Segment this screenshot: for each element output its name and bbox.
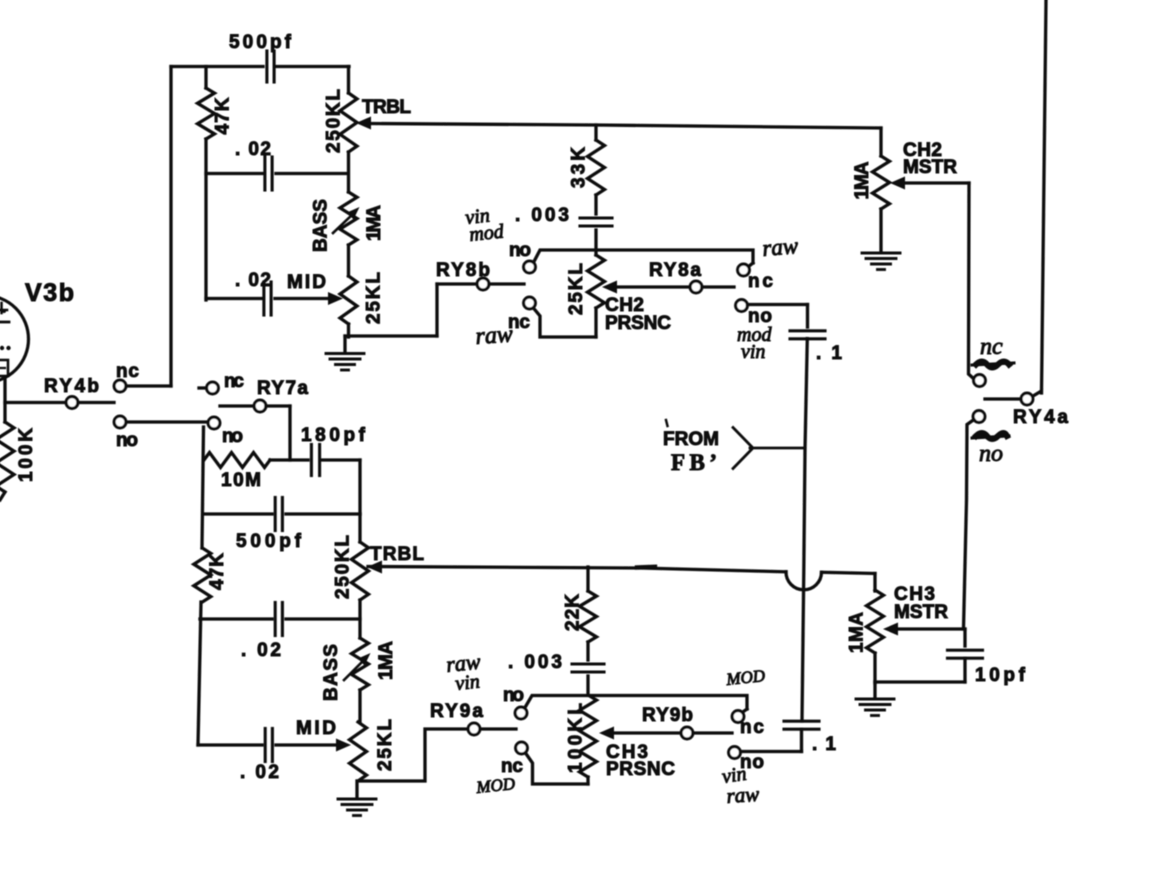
svg-text:RY4b: RY4b — [44, 376, 99, 397]
svg-text:FROM: FROM — [663, 429, 719, 450]
svg-text:25KL: 25KL — [375, 719, 396, 771]
svg-text:TRBL: TRBL — [370, 544, 424, 565]
svg-text:250KL: 250KL — [333, 535, 354, 599]
svg-text:vin: vin — [741, 341, 765, 363]
svg-text:V3b: V3b — [25, 279, 74, 307]
svg-text:47K: 47K — [213, 97, 234, 134]
svg-text:1MA: 1MA — [852, 161, 873, 199]
svg-text:nc: nc — [980, 334, 1003, 360]
svg-text:100K: 100K — [16, 428, 37, 482]
svg-text:33K: 33K — [569, 147, 590, 188]
svg-text:RY8b: RY8b — [436, 260, 490, 281]
svg-text:FB’: FB’ — [671, 450, 717, 475]
svg-text:1MA: 1MA — [847, 612, 868, 653]
svg-text:RY7a: RY7a — [257, 378, 308, 399]
svg-text:raw: raw — [475, 321, 514, 350]
svg-text:raw: raw — [761, 233, 799, 261]
svg-text:RY8a: RY8a — [649, 260, 701, 281]
svg-text:RY9a: RY9a — [430, 701, 483, 722]
svg-text:nc: nc — [116, 361, 139, 382]
svg-text:mod: mod — [468, 220, 506, 246]
svg-text:TRBL: TRBL — [362, 97, 411, 118]
svg-text:no: no — [509, 240, 531, 261]
svg-text:BASS: BASS — [311, 199, 332, 252]
svg-text:MSTR: MSTR — [903, 157, 957, 178]
svg-text:PRSNC: PRSNC — [606, 759, 675, 780]
svg-text:MID: MID — [287, 272, 326, 293]
svg-text:25KL: 25KL — [566, 263, 587, 315]
svg-text:25KL: 25KL — [364, 272, 385, 324]
svg-text:47K: 47K — [207, 553, 228, 590]
svg-text:nc: nc — [224, 371, 244, 392]
svg-text:BASS: BASS — [321, 644, 342, 701]
svg-text:250KL: 250KL — [324, 89, 345, 153]
svg-text:raw: raw — [726, 782, 760, 808]
svg-text:no: no — [222, 426, 243, 447]
svg-text:no: no — [116, 430, 138, 451]
svg-text:no: no — [979, 441, 1003, 467]
svg-text:RY9b: RY9b — [642, 705, 693, 726]
svg-text:RY4a: RY4a — [1013, 407, 1068, 428]
svg-text:100KL: 100KL — [566, 703, 587, 773]
svg-text:22K: 22K — [563, 594, 584, 631]
svg-text:MID: MID — [296, 718, 336, 739]
svg-text:1MA: 1MA — [364, 205, 385, 241]
svg-text:vin: vin — [454, 671, 481, 695]
svg-text:1MA: 1MA — [376, 641, 397, 680]
svg-text:10M: 10M — [221, 470, 261, 491]
svg-text:no: no — [503, 685, 524, 706]
svg-text:MSTR: MSTR — [894, 602, 948, 623]
svg-text:PRSNC: PRSNC — [605, 313, 671, 334]
